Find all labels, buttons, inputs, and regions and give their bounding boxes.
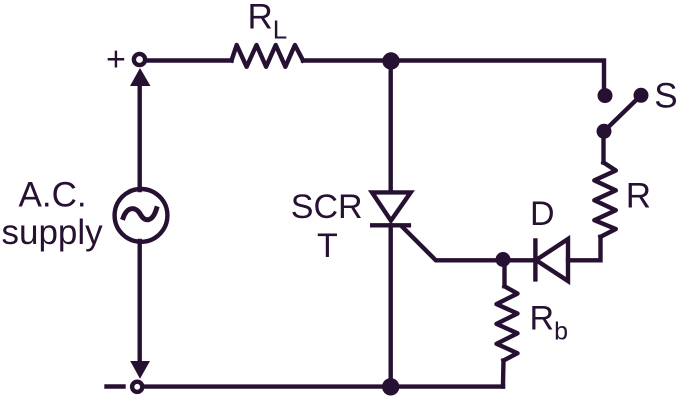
wire gate node to R_b: [502, 260, 506, 287]
switch S contact dots: [598, 88, 613, 103]
svg-text:T: T: [317, 227, 338, 265]
SCR T (thyristor): [372, 192, 411, 225]
A.C. supply source: [115, 189, 168, 242]
wire source bottom lead: [137, 241, 141, 363]
wire top from R_L to switch corner: [303, 61, 604, 94]
svg-text:SCR: SCR: [291, 188, 363, 226]
svg-text:R: R: [626, 177, 651, 216]
wire switch to R: [601, 131, 605, 162]
node junction bottom (cathode node): [382, 378, 399, 395]
svg-text:supply: supply: [2, 213, 104, 252]
resistor R_L: [232, 45, 304, 67]
wire top from + terminal to R_L: [147, 58, 232, 62]
wire gate of SCR: [402, 227, 503, 261]
wire SCR cathode down to bottom node: [389, 225, 393, 386]
switch S blade: [604, 95, 641, 131]
svg-text:+: +: [106, 41, 126, 79]
terminal - circle: [132, 382, 142, 392]
diode D: [535, 239, 568, 281]
wire SCR anode: [389, 61, 393, 192]
svg-text:Rb: Rb: [530, 300, 568, 346]
svg-text:RL: RL: [248, 0, 288, 45]
arrow down at - terminal: [130, 361, 150, 379]
svg-text:S: S: [654, 77, 677, 116]
minus sign: [107, 384, 124, 388]
terminal + circle: [134, 54, 145, 65]
svg-text:D: D: [530, 195, 555, 233]
wire R_b bottom lead: [501, 361, 506, 387]
node gate junction: [496, 252, 511, 267]
wire diode to gate node: [503, 258, 535, 262]
wire source top lead: [137, 84, 141, 190]
resistor R_b: [497, 286, 518, 360]
wire bottom from - terminal to R_b: [145, 384, 504, 388]
wire R bottom to diode: [568, 237, 601, 260]
svg-text:A.C.: A.C.: [19, 176, 87, 215]
node junction top (anode node): [382, 52, 399, 69]
resistor R: [594, 163, 616, 237]
arrow up at + terminal: [130, 68, 151, 86]
